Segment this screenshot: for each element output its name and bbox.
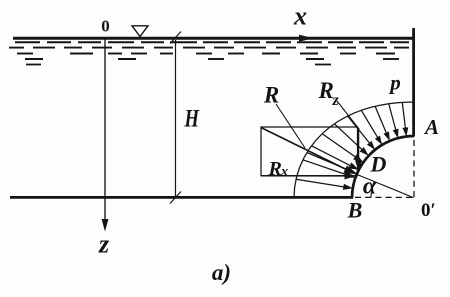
svg-text:x: x — [293, 2, 307, 31]
svg-text:R: R — [268, 158, 282, 180]
svg-text:p: p — [388, 71, 401, 95]
svg-text:R: R — [263, 83, 279, 108]
svg-text:H: H — [184, 106, 200, 133]
svg-text:α: α — [363, 174, 377, 200]
svg-text:0: 0 — [101, 17, 110, 36]
svg-text:R: R — [318, 78, 334, 103]
svg-text:x: x — [280, 165, 288, 180]
svg-text:B: B — [347, 198, 363, 223]
svg-text:0′: 0′ — [421, 200, 436, 221]
svg-text:z: z — [332, 92, 340, 109]
svg-text:a): a) — [212, 260, 231, 285]
svg-text:A: A — [423, 115, 439, 139]
svg-text:z: z — [98, 230, 110, 259]
